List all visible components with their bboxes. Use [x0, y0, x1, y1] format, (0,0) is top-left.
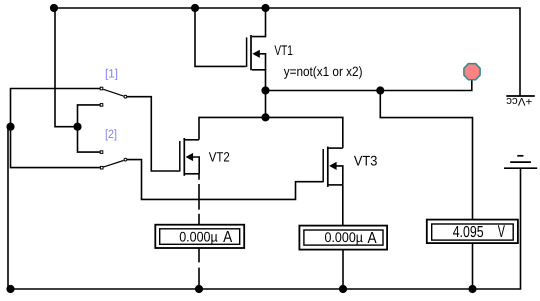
VT1 gate lead from rail: [195, 8, 246, 66]
node drain bus: [261, 113, 269, 121]
transistor VT3: [323, 147, 377, 187]
svg-text:0.000µ: 0.000µ: [325, 229, 364, 245]
wire to switch2 upper throw: [78, 127, 101, 152]
node bottom rail ammeter2: [339, 285, 347, 293]
ammeter A2: [299, 226, 387, 250]
VT3 substrate arrow lead: [335, 166, 343, 185]
wire Vcc to switch throws: [55, 8, 78, 127]
node bottom rail left: [6, 285, 14, 293]
node bottom rail voltmeter: [468, 285, 476, 293]
node output voltmeter tap: [376, 86, 384, 94]
ammeter2 inner box: [304, 230, 383, 245]
switch S1 [1]: [100, 66, 127, 106]
svg-text:VT3: VT3: [354, 152, 378, 168]
wire ground to switch1 upper throw: [11, 89, 101, 127]
VT2 gate bar: [179, 141, 181, 172]
VT2 drain lead: [185, 139, 199, 141]
wire output horizontal: [266, 80, 472, 91]
wire ground to switch2 lower throw: [11, 127, 101, 168]
wire voltmeter to ground rail: [472, 243, 474, 289]
switch2 pole contact: [124, 158, 127, 161]
ammeter2 outer box: [299, 226, 387, 250]
probe output indicator: [464, 64, 480, 80]
VT1 source lead: [252, 70, 266, 91]
VT3 arrow: [329, 162, 337, 170]
svg-text:4.095: 4.095: [453, 224, 484, 241]
VT2 channel bar: [183, 138, 185, 176]
svg-text:A: A: [223, 229, 232, 246]
VT1 arrow: [252, 50, 259, 58]
VT3 source lead: [329, 184, 343, 186]
node top rail left: [50, 4, 58, 12]
voltmeter inner box: [432, 224, 514, 240]
wire ammeter2 to ground rail: [342, 249, 344, 289]
switch1 upper throw contact: [100, 87, 103, 90]
VT1 gate bar: [246, 37, 248, 67]
switch S2 [2]: [100, 127, 127, 169]
transistor VT1: [195, 8, 293, 91]
transistor VT2: [180, 138, 230, 176]
svg-text:VT2: VT2: [209, 149, 230, 164]
wire top +Vcc rail: [54, 8, 520, 96]
ground symbol (rotated 180): [504, 156, 537, 168]
wire output tap to voltmeter: [380, 91, 472, 220]
wire VT3 source to ammeter2: [342, 185, 344, 226]
svg-text:A: A: [368, 230, 377, 247]
VT1 channel bar: [250, 35, 252, 70]
svg-text:+Vcc: +Vcc: [506, 95, 532, 107]
VT3 channel bar: [327, 147, 329, 187]
voltmeter outer box: [427, 220, 518, 244]
switch1 lever: [103, 89, 123, 96]
node top rail VT1 drain tap: [261, 4, 269, 12]
wire switch1 pole to VT2 gate: [127, 97, 180, 171]
node Vcc throw junction: [73, 123, 81, 131]
svg-text:y=not(x1 or x2): y=not(x1 or x2): [284, 64, 363, 79]
VT1 substrate arrow lead: [259, 54, 266, 70]
switch2 lower throw contact: [100, 166, 103, 169]
ammeter1 outer box: [155, 225, 244, 248]
wire switch2 pole to VT3 gate: [127, 160, 323, 200]
voltmeter V1: [427, 220, 518, 244]
switch1 lower throw contact: [100, 104, 103, 107]
ammeter1 inner box: [160, 229, 240, 245]
svg-text:[2]: [2]: [105, 127, 117, 141]
wire left ground drop: [7, 127, 9, 289]
switch2 lever: [103, 161, 123, 168]
VT2 arrow: [186, 153, 194, 161]
VT3 gate bar: [322, 149, 324, 182]
wire output to drain bus: [265, 91, 267, 118]
node bottom rail ammeter1: [195, 285, 203, 293]
svg-text:0.000µ: 0.000µ: [179, 228, 218, 244]
VT3 drain lead: [329, 147, 343, 149]
wire bottom ground rail: [8, 168, 521, 289]
VT2 source lead: [185, 173, 199, 175]
node output at VT1 source: [261, 86, 269, 94]
VT1 drain lead: [252, 8, 266, 37]
wire VT2 source to ammeter1 (dashed): [198, 174, 200, 285]
VT2 substrate arrow lead: [192, 157, 199, 174]
wire to switch1 lower throw: [78, 105, 101, 127]
node ground branch junction: [6, 123, 14, 131]
ammeter A1: [155, 225, 244, 248]
switch2 upper throw contact: [100, 151, 103, 154]
svg-text:[1]: [1]: [105, 66, 118, 80]
power +Vcc symbol bar: [506, 95, 535, 97]
switch1 pole contact: [124, 95, 127, 98]
svg-text:VT1: VT1: [274, 42, 293, 58]
node top rail VT1 gate tap: [191, 4, 199, 12]
wire drain bus VT2-VT3: [199, 117, 343, 148]
svg-text:V: V: [498, 222, 506, 241]
